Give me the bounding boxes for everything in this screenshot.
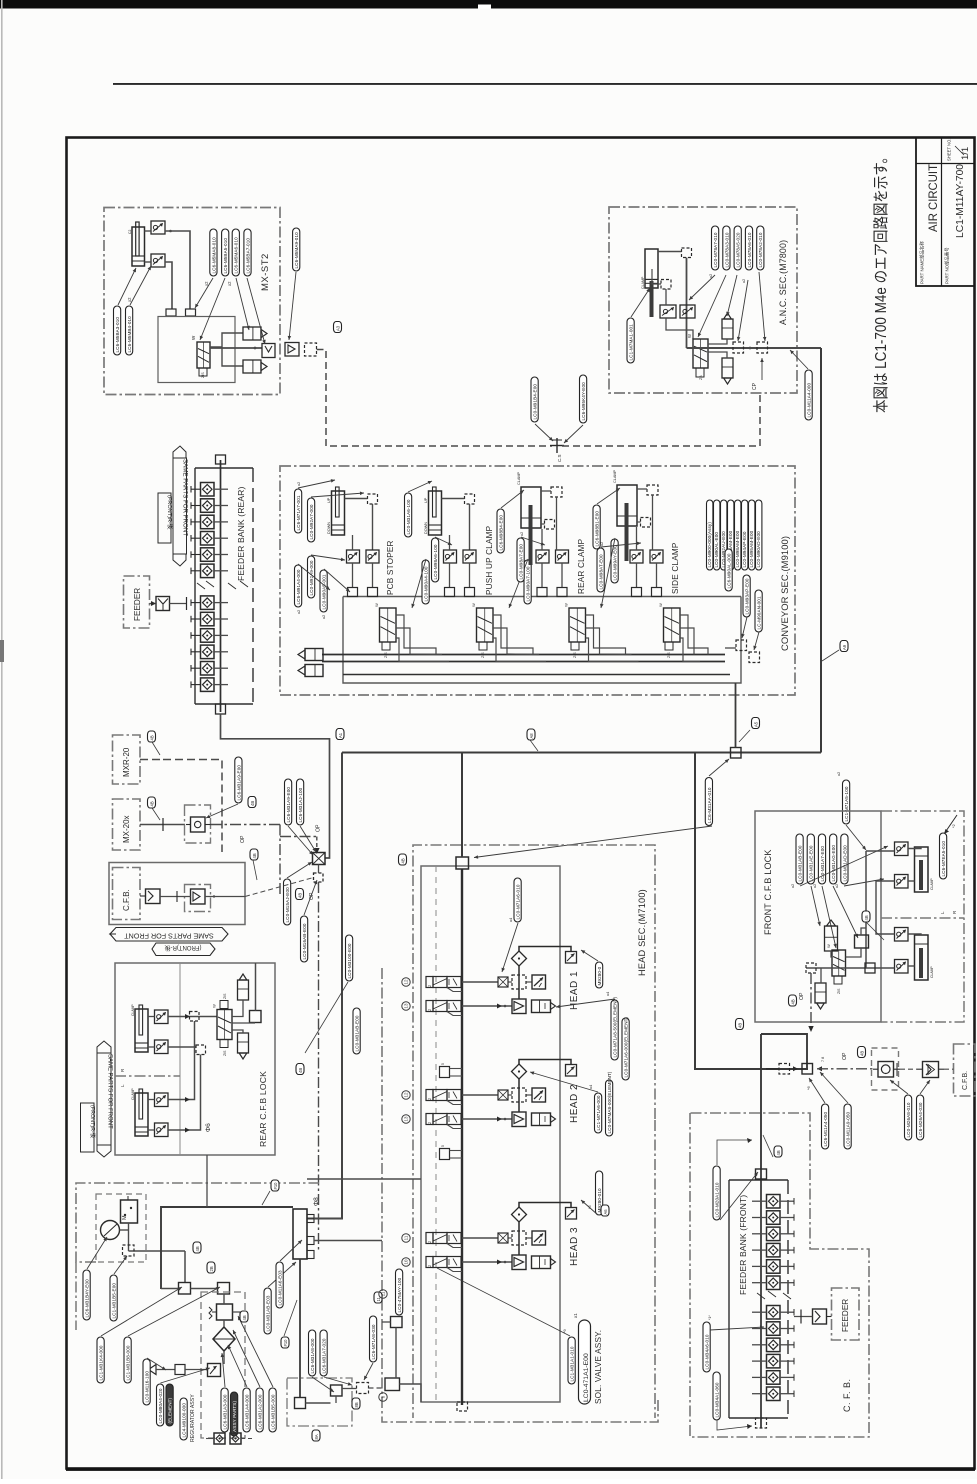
svg-text:4B: 4B (401, 858, 406, 863)
svg-text:10: 10 (404, 1259, 409, 1265)
pill LC0-M98AT-E00 (597, 548, 604, 592)
svg-text:LC0-M80A4-020: LC0-M80A4-020 (158, 1388, 163, 1423)
HEAD 3 wire to drain box (519, 1203, 571, 1208)
wire feeder bank to conveyor line down (221, 714, 330, 858)
wires side clamp to manifold (637, 495, 657, 588)
fitting square phi8 bottom (295, 1398, 306, 1409)
junction square on trunk under conveyor (731, 748, 742, 759)
solenoid valve side clamp (658, 603, 680, 658)
HEAD 2 wire to drain box (519, 1060, 571, 1065)
leader to trunk fitting (790, 350, 808, 369)
check valve on MX-ST2 cylinder top (151, 221, 165, 234)
svg-text:LC0-M34A6-010: LC0-M34A6-010 (705, 1334, 710, 1369)
dash-dot box around bottom fittings (287, 1378, 352, 1426)
phi8 trunk down (299, 1259, 301, 1398)
svg-text:LC-M90AN-001: LC-M90AN-001 (757, 596, 762, 629)
wire inlet to regulator (223, 1294, 225, 1304)
oval tag 4B rear cfb (296, 1064, 304, 1075)
pill (ELEMENT) (166, 1384, 173, 1426)
svg-text:LC0-M90A5-001: LC0-M90A5-001 (322, 574, 327, 609)
svg-text:(ASSY PARTS): (ASSY PARTS) (232, 1401, 237, 1434)
pill LC6-M5BA5-010 (222, 229, 229, 276)
pill LC6-M31A7-020 (320, 1330, 327, 1376)
svg-text:OP: OP (799, 992, 805, 1000)
svg-text:11: 11 (381, 1291, 386, 1296)
pill LC0-M34A1-060 (lower) (713, 1372, 720, 1420)
leader pills to C.S (535, 424, 553, 441)
oval tag 8B bottom mid (352, 1398, 360, 1409)
wire MX-ST2 outlet (210, 347, 262, 349)
svg-text:LC6-M5BA3-010: LC6-M5BA3-010 (115, 317, 120, 353)
drain valve small box (208, 1364, 221, 1377)
svg-text:CLAMP: CLAMP (930, 966, 934, 978)
muffler MX-ST2 lower (243, 360, 267, 373)
filter diamond (213, 1320, 235, 1364)
phi8 manifold block (293, 1209, 314, 1259)
pill LC1-M31K4-000 (97, 1337, 104, 1383)
svg-text:LC6-M71A7-001: LC6-M71A7-001 (296, 495, 301, 530)
label (FRONT)R-後 (rear cfb, rotated vertical) (81, 1103, 98, 1152)
HEAD 1 cross fitting (498, 977, 508, 987)
oval tag 4B junction row2 (858, 1047, 866, 1058)
feeder station rear upper 4 (191, 532, 228, 546)
leaders manifold pills (298, 555, 350, 592)
svg-text:LC0-471A1-E00: LC0-471A1-E00 (583, 1353, 590, 1402)
svg-text:LC0-M98A6-100: LC0-M98A6-100 (433, 544, 438, 579)
HEAD 1 valve 2 (426, 1001, 461, 1012)
svg-text:LC0-M15AJ-E00: LC0-M15AJ-E00 (285, 887, 290, 923)
HEAD 3 pressure switch (532, 1231, 546, 1245)
svg-text:W: W (687, 334, 692, 338)
head supply top fitting (456, 857, 469, 869)
HEAD 3 circled tag lower (402, 1258, 410, 1266)
svg-text:OP: OP (240, 835, 246, 843)
manifold inlet wires from right (307, 1179, 421, 1241)
cylinder ANC clamp (641, 249, 658, 317)
inner dashed line (435, 866, 437, 1402)
HEAD 3 drain box (566, 1208, 577, 1220)
front cfb vertical wire to check valves (866, 851, 895, 968)
pill LC0-M80A4-020 (157, 1384, 164, 1426)
pill LC6-M31A9-E00 (junction) (285, 779, 292, 825)
svg-text:LC6-M31AJ-100: LC6-M31AJ-100 (298, 787, 303, 822)
HEAD 3 vertical through diamond (518, 1222, 520, 1256)
svg-text:CLAMP: CLAMP (517, 471, 521, 485)
cylinder rear clamp (517, 471, 541, 565)
fitting square push up clamp (465, 494, 475, 504)
svg-text:FEEDER BANK (REAR): FEEDER BANK (REAR) (236, 487, 246, 581)
muffler front cfb upper (825, 920, 838, 951)
svg-text:HEAD 2: HEAD 2 (569, 1084, 580, 1123)
pill LC6-M71A7-001 (pcb stopper cyl) (295, 489, 302, 533)
conveyor trunk line A (322, 654, 725, 656)
pill M9280-0 (head1 drain) (596, 962, 603, 988)
feeder station rear lower 4 (191, 645, 228, 659)
svg-text:SOL. VALVE ASSY.: SOL. VALVE ASSY. (594, 1330, 603, 1404)
oval tag 4B near B fitting (240, 1311, 248, 1322)
svg-text:12: 12 (404, 979, 409, 985)
feeder station front upper 3 (752, 1227, 794, 1241)
svg-text:A1: A1 (338, 732, 343, 738)
oval tag A6 bus mid (601, 1205, 609, 1216)
junction lower square (314, 873, 324, 882)
cylinder side clamp (613, 469, 637, 561)
leader to bottom fitting (717, 1420, 752, 1430)
front cfb lock dash-dot extension (881, 811, 964, 1022)
junction square X fitting (313, 853, 326, 865)
pill LC6-M90AL-000 (725, 549, 732, 591)
check valve front cfb L1 (895, 928, 909, 942)
svg-text:LC6-M5BA7-010: LC6-M5BA7-010 (245, 238, 250, 274)
manifold stubs side clamp (632, 588, 662, 597)
svg-text:SAME PARTS FOR FRONT: SAME PARTS FOR FRONT (107, 1054, 113, 1129)
front cfb lock outer box (755, 811, 881, 1022)
fitting square bottom center (331, 1385, 343, 1396)
pill (LC0-471A1-E00) sol valve assy (573, 1313, 591, 1404)
svg-text:FEEDER: FEEDER (133, 588, 142, 621)
feeder station rear upper 1 (191, 483, 228, 497)
pill LC0-M78A7-010 (712, 226, 719, 270)
muffler rear cfb lower (238, 1033, 249, 1059)
leader pills to cylinder (118, 268, 136, 305)
wire trunk to head fitting (461, 753, 463, 858)
HEAD 2 filter regulator (532, 1113, 556, 1126)
cylinder PCB stopper (327, 487, 345, 535)
svg-text:LC6-M31A2-000: LC6-M31A2-000 (258, 1394, 263, 1429)
svg-text:4B: 4B (860, 1051, 865, 1056)
check valve front cfb L2 (895, 960, 909, 974)
pill conveyor stack 5 LC0-M98AM-E00 (735, 500, 741, 570)
svg-text:FEEDER: FEEDER (841, 1299, 850, 1332)
OP arrow into junction (314, 837, 320, 855)
wire MX-20x to check valve (140, 818, 185, 831)
gauge dashes box (96, 1194, 146, 1262)
pill LC6-M7EA5-010 right (940, 833, 947, 879)
oval tag 11 right (374, 1292, 382, 1303)
fitting square PCB stopper (368, 494, 378, 504)
pill LC0-M20A1-010 (713, 1166, 720, 1220)
OP dash line from MX to junction (211, 824, 281, 826)
junction arrows and marks (766, 1057, 825, 1090)
svg-text:LC0-M11A9-050: LC0-M11A9-050 (846, 1111, 851, 1146)
feeder station front lower 1 (752, 1306, 794, 1320)
svg-text:LC0-M31AB-E00: LC0-M31AB-E00 (355, 1015, 360, 1051)
pill LC6-M31A8-000 (bottom mid) (309, 1330, 316, 1376)
svg-text:CLAMP: CLAMP (930, 878, 934, 890)
HEAD 1 wire row1 (462, 981, 498, 983)
svg-text:FEEDER BANK (FRONT): FEEDER BANK (FRONT) (738, 1195, 748, 1295)
oval tag 8A bottom (312, 1430, 320, 1441)
section box C.F.B (left) (113, 868, 141, 920)
feeder bank rear bus line (220, 460, 222, 712)
HEAD 1 dashed fitting (512, 975, 526, 989)
svg-text:LC0-M78A5-020: LC0-M78A5-020 (736, 232, 741, 267)
svg-text:LC0-M90A4-100: LC0-M90A4-100 (424, 566, 429, 601)
leader pill to ANC cylinder (631, 288, 650, 317)
svg-text:ZIS: ZIS (223, 1050, 227, 1056)
leaders junction pills bottom (809, 1072, 848, 1103)
svg-text:MX-20x: MX-20x (122, 815, 131, 843)
oval tag 4B cfb coupling (862, 911, 870, 922)
cfb coupling chevron box (917, 1062, 944, 1078)
pill LC0-M16AB-E00 (301, 916, 308, 962)
svg-text:LC6-M26A4-030: LC6-M26A4-030 (918, 1102, 923, 1137)
svg-text:13: 13 (404, 1116, 409, 1122)
fitting square side clamp top (647, 485, 658, 495)
svg-text:A6: A6 (603, 1209, 608, 1215)
HEAD 1 lubricator triangle box (512, 999, 526, 1014)
svg-text:Φ8: Φ8 (313, 1197, 320, 1206)
oval tag 4B cfb (250, 849, 258, 860)
check valve rear clamp left (536, 550, 549, 563)
svg-text:W: W (471, 603, 476, 607)
pill LC0-M31A7-E00 (818, 834, 825, 884)
HEAD 1 diamond fitting (512, 951, 527, 966)
HEAD 3 valve 1 (426, 1233, 461, 1244)
outer dash-dot boundary left (sol valve assy) (382, 968, 658, 1422)
feeder station front upper 6 (752, 1276, 794, 1290)
svg-text:HEAD SEC.(M7100): HEAD SEC.(M7100) (637, 889, 647, 976)
pill LC6-M31AA-010 below junction (705, 778, 712, 826)
HEAD 2 vertical through diamond (518, 1079, 520, 1113)
wire manifold bottom to junction (735, 683, 737, 748)
svg-text:LC6-M31A3-000: LC6-M31A3-000 (223, 1394, 228, 1429)
cylinder rear cfb L (131, 1088, 148, 1136)
rear cfb lock outer box (115, 963, 275, 1155)
leader rear cfb to pill (305, 982, 348, 1053)
oval tag *10 top (262, 1180, 279, 1205)
trunk wire ANC outlet down right side (820, 348, 822, 753)
svg-text:4B: 4B (298, 893, 303, 898)
svg-text:LC6-M7EA5-010: LC6-M7EA5-010 (941, 841, 946, 877)
svg-text:PART NAME部品名称: PART NAME部品名称 (919, 241, 926, 284)
trunk wire horizontal y752 (342, 752, 821, 754)
pill LC6-M95K4Y-E00 (580, 375, 587, 423)
wire ANC cylinder top to fitting (658, 251, 682, 253)
oval tag 4B junction row1 (736, 1019, 744, 1030)
svg-text:FRONT C.F.B LOCK: FRONT C.F.B LOCK (763, 849, 773, 935)
pill LC0-M93AP-E00 (743, 575, 750, 617)
OP dash-dot line right of junction (817, 1068, 873, 1070)
feeder station front upper 4 (752, 1243, 794, 1257)
small squares bottom strip (206, 1433, 252, 1444)
svg-text:本図は LC1-700 M4e のエア回路図を示す。: 本図は LC1-700 M4e のエア回路図を示す。 (872, 150, 890, 413)
pill M9280-010 (head3 drain) (596, 1171, 603, 1215)
svg-text:SHEET NO.: SHEET NO. (947, 139, 952, 162)
pill LC6-M11A4-050 (822, 1104, 829, 1149)
wires rear cfb R (148, 1014, 217, 1047)
svg-text:13: 13 (404, 1003, 409, 1009)
svg-text:4B: 4B (298, 1068, 303, 1073)
section box C.F.B. mid right (954, 1044, 976, 1096)
fitting below side clamp (641, 518, 651, 528)
HEAD 2 diamond fitting (512, 1064, 527, 1079)
valve outlet lines PCB stopper (396, 615, 449, 662)
leader sol valve pill to valve (437, 1268, 570, 1336)
solenoid valve ANC (693, 339, 708, 368)
feeder station front upper 5 (752, 1260, 794, 1274)
wire CFB to OP dash (205, 878, 314, 898)
feeder station rear upper 3 (191, 515, 228, 529)
head supply bottom fitting (457, 1402, 468, 1411)
cylinder MX-ST2 stopper (128, 222, 145, 266)
muffler ANC lower (722, 358, 733, 384)
inlet fitting square B (218, 1283, 230, 1295)
leader pill to outlet fitting (288, 272, 296, 340)
check valve ANC right (680, 305, 695, 318)
pill LC6-M98B4-E00 (rear clamp) (497, 509, 504, 553)
cylinder rear cfb R (131, 1004, 148, 1052)
muffler conveyor supply upper (298, 649, 323, 661)
svg-text:LC0-M7MA8-000(ELEMENT): LC0-M7MA8-000(ELEMENT) (607, 1071, 612, 1133)
feeder station rear lower 6 (191, 678, 228, 692)
svg-text:LC0-M93AP-E00: LC0-M93AP-E00 (745, 578, 750, 614)
svg-text:W: W (658, 603, 663, 607)
pill LC6-M98B1-E00 (side clamp) (593, 505, 600, 549)
svg-text:LC0-M90AL-E00: LC0-M90AL-E00 (714, 532, 719, 568)
svg-text:LC0-M16AB-E00: LC0-M16AB-E00 (302, 923, 307, 959)
conveyor trunk line C (343, 674, 730, 676)
feeder rear coupling valve (156, 597, 170, 611)
svg-text:LC0-M31AG-E00: LC0-M31AG-E00 (831, 845, 836, 882)
svg-text:C.S: C.S (557, 454, 562, 462)
HEAD 1 circled tag upper (402, 978, 410, 986)
check valve side clamp left (630, 550, 643, 563)
HEAD 2 valve 1 (426, 1090, 461, 1101)
svg-text:LC4-M9100-000: LC4-M9100-000 (182, 1403, 187, 1438)
wires valve to mufflers rear cfb (232, 1000, 243, 1033)
svg-text:LC1-M31B5-E00: LC1-M31B5-E00 (112, 1283, 117, 1319)
svg-text:LC0-M116-100: LC0-M116-100 (145, 1371, 150, 1403)
fitting squares conveyor right (736, 640, 760, 663)
pill LC6-M31AB-E00 (mid left) (353, 1008, 360, 1054)
check valve rear cfb L top (155, 1093, 169, 1107)
pill LC0-M116-100 (143, 1359, 150, 1405)
svg-text:12: 12 (404, 1092, 409, 1098)
svg-text:LC6-M11A4-050: LC6-M11A4-050 (823, 1111, 828, 1146)
pill LC4-M9100-000 (180, 1398, 187, 1440)
leaders cfb coupling pills (890, 1080, 930, 1094)
solenoid valve rear cfb (212, 993, 233, 1056)
pill LC0-M31AB-E03 (phi8) (264, 1288, 271, 1334)
svg-text:ZIS: ZIS (837, 988, 841, 994)
pill LC6-M31A4-000 (243, 1388, 250, 1432)
pill LC1-M71A5-100 (front cfb feed) (843, 780, 850, 824)
svg-text:LC6-M5MB4-010: LC6-M5MB4-010 (127, 316, 132, 353)
HEAD 3 diamond fitting (512, 1207, 527, 1222)
svg-text:LC0-M31AB-E00: LC0-M31AB-E00 (798, 845, 803, 881)
wire conveyor manifold right out (725, 647, 736, 649)
pill LC0-M92A7-000 (308, 498, 315, 542)
svg-text:C2: C2 (128, 230, 132, 234)
oval tag 21B (207, 1262, 215, 1273)
svg-text:11: 11 (404, 1235, 409, 1240)
pill conveyor stack 6 LC0-M94AP-E00 (742, 500, 748, 570)
svg-text:2B: 2B (209, 1266, 214, 1271)
pill LC6-M5MB4-010 (126, 306, 133, 355)
fitting below rear clamp (545, 520, 555, 530)
wires check valves ANC (665, 289, 667, 305)
pill conveyor stack 7 LC0-M95AM-E00 (749, 500, 755, 570)
HEAD 1 filter regulator (532, 1000, 556, 1013)
feeder station rear lower 3 (191, 629, 228, 643)
check valve PCB stopper left (347, 550, 360, 563)
svg-text:CLAMP: CLAMP (131, 1088, 135, 1100)
manifold stub right (186, 309, 196, 316)
svg-text:4B: 4B (864, 915, 869, 920)
cfb coupling dashed box mid-right (872, 1048, 899, 1090)
pill LC6-M31AJ-100 (297, 779, 304, 825)
trunk wire left end down x342 (307, 753, 342, 1219)
svg-text:LC6-M31A9-E00: LC6-M31A9-E00 (236, 765, 241, 801)
svg-text:A.N.C. SEC.(M7800): A.N.C. SEC.(M7800) (778, 240, 788, 325)
svg-text:LC0-M92A7-000: LC0-M92A7-000 (309, 504, 314, 539)
HEAD 3 dashed fitting (512, 1231, 526, 1245)
HEAD 1 vertical through diamond (518, 966, 520, 1000)
svg-text:LC0-M78A3-010: LC0-M78A3-010 (724, 232, 729, 267)
HEAD 2 circled tag lower (402, 1115, 410, 1123)
svg-text:LC1-M11AY-700: LC1-M11AY-700 (955, 164, 966, 238)
pill LC0-M31AE-E00 (807, 834, 814, 884)
pill LC0-M15AJ-E00 (284, 879, 291, 925)
HEAD 3 wire row2 (462, 1260, 512, 1265)
svg-text:LC6-M95K4Y-E00: LC6-M95K4Y-E00 (581, 382, 586, 421)
svg-text:ZIS: ZIS (573, 652, 577, 658)
fitting dashed square below ANC cylinder (661, 280, 671, 290)
leaders front cfb pills (800, 846, 888, 948)
pill LC0-47MAY-100 (396, 1269, 403, 1315)
svg-text:LC6-M5MA6-010: LC6-M5MA6-010 (234, 237, 239, 274)
label (FRONT)R-後 (cfb, rotated) (152, 943, 215, 956)
check valve PCB stopper right (366, 550, 379, 563)
feeder station rear upper 2 (191, 499, 228, 513)
pill LC0-M90A4-100 (422, 560, 429, 604)
cylinder front cfb R (915, 847, 935, 892)
svg-text:LC1-M71A5-100: LC1-M71A5-100 (844, 786, 849, 821)
dashed wire C.S to ANC section (562, 394, 760, 446)
dashed supply wire MX-ST2 to C.S junction (317, 350, 553, 447)
feeder bank rear gap marks (197, 581, 248, 589)
dashed junction squares rear cfb (190, 1012, 206, 1055)
svg-text:MX-ST2: MX-ST2 (260, 253, 271, 291)
check valve on MX-ST2 cylinder bottom (151, 254, 165, 267)
solenoid valve front cfb (826, 944, 846, 994)
leader pill to head supply (474, 826, 712, 859)
fitting square front cfb (855, 935, 869, 948)
pill LC0-M31AG-E00 (830, 834, 837, 884)
svg-text:LC0-M31AD-E00: LC0-M31AD-E00 (842, 845, 847, 882)
CFB group outer box (109, 863, 245, 925)
pill LC0-M91B4-E00 (531, 377, 538, 422)
svg-text:LC1-M31K4-000: LC1-M31K4-000 (99, 1345, 104, 1380)
conveyor manifold box (343, 597, 741, 684)
svg-text:AIR CIRCUIT: AIR CIRCUIT (928, 164, 940, 232)
wire down to feeder bank front (760, 1034, 762, 1169)
check valve rear cfb R bottom (155, 1040, 169, 1054)
feeder bank rear top fitting (216, 455, 226, 464)
svg-text:PUSH UP CLAMP: PUSH UP CLAMP (485, 525, 494, 595)
wire cylinder top to valve inlet (145, 230, 152, 232)
svg-text:M9280-0: M9280-0 (597, 966, 602, 985)
svg-text:LC0-M91B4-E00: LC0-M91B4-E00 (533, 384, 538, 420)
stub MXR-20 (140, 759, 163, 761)
svg-text:8A: 8A (314, 1434, 319, 1439)
HEAD 3 lubricator triangle box (512, 1255, 526, 1270)
muffler front cfb lower (815, 983, 826, 1009)
check valve MX (186, 817, 211, 832)
muffler conveyor supply lower (298, 665, 323, 677)
dashed fitting square (305, 343, 317, 356)
